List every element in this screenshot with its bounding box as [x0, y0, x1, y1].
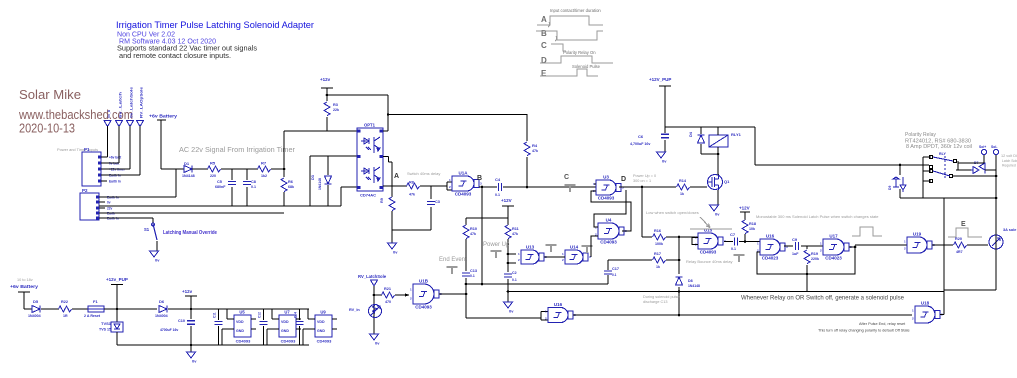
- svg-text:VDD: VDD: [236, 320, 244, 324]
- svg-text:R22: R22: [61, 300, 68, 304]
- svg-text:CD4093: CD4093: [600, 240, 617, 245]
- svg-text:CD4023: CD4023: [825, 256, 842, 261]
- svg-text:0.1: 0.1: [495, 193, 500, 197]
- svg-text:RV_LatchSole: RV_LatchSole: [358, 274, 387, 279]
- svg-text:R20: R20: [955, 237, 962, 241]
- svg-text:68k: 68k: [288, 185, 294, 189]
- svg-text:This turn off relay changing p: This turn off relay changing polarity to…: [818, 329, 910, 333]
- svg-text:R4: R4: [532, 143, 538, 148]
- svg-text:0.1: 0.1: [470, 274, 475, 278]
- svg-text:C6: C6: [638, 134, 644, 139]
- svg-text:Relay Bounce 40ms delay: Relay Bounce 40ms delay: [686, 259, 732, 264]
- svg-text:CD4093: CD4093: [415, 305, 432, 310]
- svg-text:1N4148: 1N4148: [182, 174, 195, 178]
- svg-text:22k: 22k: [333, 108, 339, 112]
- svg-text:CD4093: CD4093: [598, 196, 615, 201]
- svg-text:Sol-: Sol-: [991, 145, 997, 149]
- svg-text:D9: D9: [888, 186, 892, 190]
- svg-text:4R7: 4R7: [956, 250, 963, 254]
- svg-text:1N4148: 1N4148: [318, 178, 322, 190]
- svg-text:Power Up: Power Up: [483, 242, 510, 248]
- svg-text:1uF: 1uF: [792, 252, 799, 256]
- svg-text:U7: U7: [284, 310, 290, 315]
- svg-text:B: B: [541, 29, 547, 38]
- svg-text:C12: C12: [258, 312, 262, 318]
- svg-text:0v: 0v: [509, 309, 514, 314]
- svg-text:U4: U4: [606, 218, 612, 223]
- svg-text:TVS1: TVS1: [101, 321, 112, 326]
- svg-text:R19: R19: [811, 252, 818, 256]
- svg-text:+6v Battery: +6v Battery: [10, 284, 38, 289]
- svg-text:VDD: VDD: [317, 320, 325, 324]
- svg-text:CD4093: CD4093: [281, 339, 296, 344]
- svg-text:U19: U19: [913, 232, 922, 237]
- svg-text:0v: 0v: [192, 359, 197, 364]
- svg-text:C17: C17: [612, 267, 619, 271]
- svg-text:1k2: 1k2: [261, 174, 267, 178]
- svg-text:47k: 47k: [532, 149, 538, 153]
- svg-text:F1: F1: [93, 299, 98, 304]
- svg-text:6v_Latch: 6v_Latch: [119, 92, 123, 118]
- svg-text:and remote contact closure inp: and remote contact closure inputs.: [119, 51, 231, 60]
- svg-text:R21: R21: [384, 287, 391, 291]
- svg-text:GND: GND: [236, 329, 244, 333]
- svg-text:CD4023: CD4023: [762, 256, 779, 261]
- svg-text:0v: 0v: [107, 201, 111, 205]
- svg-text:S1: S1: [144, 227, 150, 232]
- svg-text:R18: R18: [749, 222, 756, 226]
- svg-text:Solar Mike: Solar Mike: [19, 87, 81, 102]
- svg-text:Polarity Relay: Polarity Relay: [905, 132, 936, 138]
- svg-text:D6: D6: [159, 299, 165, 304]
- svg-text:D8: D8: [688, 279, 693, 283]
- svg-text:U3: U3: [603, 175, 609, 180]
- svg-text:Sol+: Sol+: [979, 145, 986, 149]
- svg-text:Power Up = 0: Power Up = 0: [633, 174, 656, 178]
- svg-text:+12V: +12V: [501, 198, 512, 203]
- svg-text:C: C: [564, 174, 569, 181]
- svg-text:GND: GND: [317, 329, 325, 333]
- svg-text:U17: U17: [829, 234, 838, 239]
- svg-text:D1: D1: [184, 161, 190, 166]
- svg-text:Latching Manual Override: Latching Manual Override: [163, 230, 217, 236]
- svg-text:CD4093: CD4093: [455, 192, 472, 197]
- svg-text:1N4004: 1N4004: [28, 314, 41, 318]
- svg-text:D: D: [621, 176, 626, 183]
- svg-text:8 Amp DPDT, 360r 12v coil: 8 Amp DPDT, 360r 12v coil: [906, 144, 972, 150]
- svg-text:47k: 47k: [512, 232, 518, 236]
- svg-text:R16: R16: [654, 229, 661, 233]
- svg-text:Q1: Q1: [724, 179, 730, 184]
- svg-text:470: 470: [385, 300, 391, 304]
- svg-text:+6v batt: +6v batt: [109, 156, 122, 160]
- svg-text:End Event: End Event: [439, 257, 467, 263]
- svg-text:2020-10-13: 2020-10-13: [19, 122, 75, 136]
- svg-text:A: A: [541, 15, 547, 24]
- svg-text:C14: C14: [294, 312, 298, 318]
- svg-text:CD4093: CD4093: [236, 339, 251, 344]
- svg-text:1k: 1k: [656, 265, 660, 269]
- svg-text:Switch 40ms delay: Switch 40ms delay: [407, 171, 440, 176]
- svg-text:3A sole: 3A sole: [1003, 228, 1016, 232]
- svg-text:R17: R17: [654, 252, 661, 256]
- svg-text:0v: 0v: [393, 250, 398, 255]
- svg-text:Non CPU Ver 2.02: Non CPU Ver 2.02: [117, 32, 175, 39]
- svg-text:Low when switch open/closes: Low when switch open/closes: [646, 210, 699, 215]
- svg-text:discharge C13: discharge C13: [643, 300, 667, 304]
- svg-text:+12v_PUP: +12v_PUP: [106, 277, 128, 282]
- svg-text:0v_b: 0v_b: [107, 109, 111, 118]
- svg-text:220: 220: [210, 174, 216, 178]
- svg-text:R8: R8: [409, 181, 414, 185]
- svg-text:Whenever Relay on OR Switch of: Whenever Relay on OR Switch off, generat…: [741, 296, 905, 302]
- svg-text:220k: 220k: [811, 257, 819, 261]
- svg-text:C2: C2: [512, 271, 517, 275]
- svg-text:R7: R7: [261, 161, 267, 166]
- svg-text:R10: R10: [470, 227, 477, 231]
- svg-text:C7: C7: [730, 232, 736, 237]
- svg-text:www.thebackshed.com: www.thebackshed.com: [18, 108, 133, 122]
- svg-text:+12v: +12v: [182, 289, 193, 294]
- svg-text:P2: P2: [82, 188, 88, 193]
- svg-text:Earth In: Earth In: [109, 180, 121, 184]
- svg-text:CD74AC: CD74AC: [360, 193, 376, 198]
- svg-text:Irrigation Timer Pulse Latchin: Irrigation Timer Pulse Latching Solenoid…: [116, 19, 314, 30]
- svg-text:U5: U5: [239, 310, 245, 315]
- svg-text:During solenoid pulse: During solenoid pulse: [643, 295, 680, 299]
- svg-text:GND: GND: [281, 329, 289, 333]
- svg-text:AC 22v Signal From Irrigation: AC 22v Signal From Irrigation Timer: [179, 145, 296, 154]
- svg-text:+12v: +12v: [320, 77, 331, 82]
- svg-text:C5: C5: [217, 180, 222, 184]
- svg-text:P1: P1: [84, 147, 90, 152]
- svg-text:Polarity Relay On: Polarity Relay On: [563, 50, 596, 55]
- svg-text:B: B: [477, 175, 482, 182]
- svg-text:U16: U16: [766, 234, 775, 239]
- svg-text:1R: 1R: [63, 314, 68, 318]
- svg-text:C9: C9: [792, 237, 798, 242]
- svg-text:R14: R14: [679, 179, 687, 183]
- svg-text:0v: 0v: [715, 212, 720, 217]
- svg-text:4700uF 16v: 4700uF 16v: [160, 328, 178, 332]
- svg-text:1k: 1k: [680, 192, 684, 196]
- svg-text:Power and Timer Inputs: Power and Timer Inputs: [57, 147, 98, 152]
- svg-text:10 to 18v: 10 to 18v: [17, 278, 33, 282]
- svg-text:A: A: [394, 173, 399, 180]
- svg-text:Monostable 300 ms Solenoid Lat: Monostable 300 ms Solenoid Latch Pulse w…: [756, 214, 879, 219]
- svg-text:U18: U18: [921, 301, 930, 306]
- svg-text:R3: R3: [333, 103, 338, 107]
- svg-text:E: E: [541, 69, 547, 78]
- svg-text:C13: C13: [470, 269, 477, 273]
- svg-text:0v: 0v: [155, 258, 160, 263]
- svg-text:2 A Reset: 2 A Reset: [84, 314, 101, 318]
- svg-text:C10: C10: [178, 319, 185, 323]
- svg-text:U16: U16: [554, 302, 563, 307]
- svg-text:After Pulse End, relay reset: After Pulse End, relay reset: [859, 322, 906, 326]
- svg-text:R6: R6: [288, 180, 293, 184]
- svg-text:R11: R11: [512, 227, 519, 231]
- svg-text:C: C: [541, 41, 547, 50]
- svg-text:0v: 0v: [375, 341, 380, 346]
- svg-text:0.1: 0.1: [512, 278, 517, 282]
- svg-text:4,700uF 16v: 4,700uF 16v: [630, 142, 650, 146]
- svg-text:100k: 100k: [655, 242, 663, 246]
- svg-text:U15: U15: [704, 228, 713, 233]
- svg-text:680nF: 680nF: [215, 185, 226, 189]
- svg-text:C11: C11: [213, 312, 217, 318]
- svg-text:VDD: VDD: [281, 320, 289, 324]
- svg-text:U1A: U1A: [458, 171, 468, 176]
- svg-text:RV_ln: RV_ln: [349, 308, 360, 312]
- svg-text:Input contact/timer duration: Input contact/timer duration: [550, 8, 601, 13]
- svg-text:C4: C4: [495, 177, 501, 182]
- svg-text:0.1: 0.1: [612, 273, 617, 277]
- svg-text:D: D: [541, 56, 547, 65]
- svg-text:CD4093: CD4093: [317, 339, 332, 344]
- svg-text:R5: R5: [210, 161, 216, 166]
- svg-text:300 on = 1: 300 on = 1: [633, 179, 651, 183]
- svg-text:+12V_PUP: +12V_PUP: [649, 77, 671, 82]
- svg-text:47k: 47k: [470, 232, 476, 236]
- svg-text:U13: U13: [526, 245, 535, 250]
- svg-text:Latch Sole: Latch Sole: [1002, 159, 1017, 163]
- svg-text:D3: D3: [311, 175, 315, 180]
- svg-text:RLY1: RLY1: [731, 132, 742, 137]
- svg-text:12 volt DC: 12 volt DC: [1001, 154, 1017, 158]
- svg-text:Required: Required: [1002, 164, 1016, 168]
- svg-text:U14: U14: [570, 245, 579, 250]
- svg-text:1N4148: 1N4148: [688, 284, 700, 288]
- svg-text:CD4093: CD4093: [700, 250, 717, 255]
- svg-text:0.1: 0.1: [251, 185, 256, 189]
- svg-text:Solenoid Pulse: Solenoid Pulse: [572, 64, 601, 69]
- svg-text:U1B: U1B: [419, 279, 429, 284]
- svg-text:0v: 0v: [662, 159, 667, 164]
- svg-text:47k: 47k: [409, 193, 415, 197]
- svg-text:1N4004: 1N4004: [155, 314, 168, 318]
- svg-text:U9: U9: [320, 310, 326, 315]
- svg-text:22v: 22v: [107, 207, 113, 211]
- svg-text:+6v Battery: +6v Battery: [149, 114, 177, 119]
- svg-text:0v_LatchSole: 0v_LatchSole: [130, 87, 134, 118]
- svg-text:C8: C8: [251, 180, 256, 184]
- svg-text:+12V: +12V: [739, 206, 750, 211]
- svg-text:R9: R9: [380, 198, 384, 203]
- svg-text:0.1: 0.1: [731, 247, 736, 251]
- svg-text:TVS 15: TVS 15: [99, 328, 111, 332]
- svg-text:10k: 10k: [749, 227, 755, 231]
- svg-text:D5: D5: [33, 299, 39, 304]
- svg-text:RLY: RLY: [939, 152, 946, 156]
- svg-text:RV_LAOpSole: RV_LAOpSole: [140, 87, 144, 118]
- svg-text:E: E: [961, 221, 966, 228]
- svg-text:C3: C3: [435, 200, 440, 204]
- svg-text:OPT1: OPT1: [364, 123, 376, 128]
